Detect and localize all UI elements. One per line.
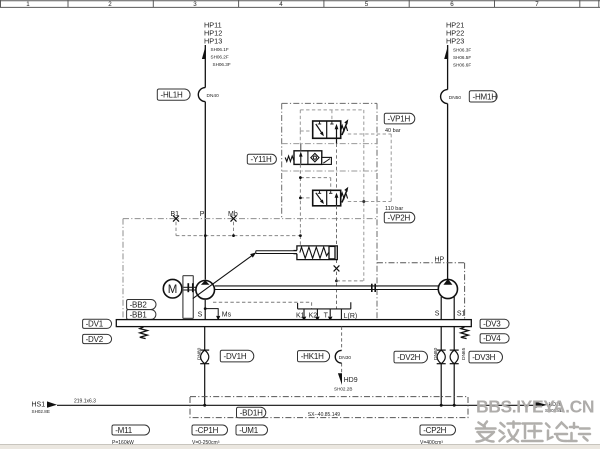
svg-text:-DV2: -DV2 xyxy=(86,335,104,344)
VP1H cell top ticks xyxy=(319,121,321,124)
labels -DV3 -DV4 xyxy=(480,319,509,328)
svg-text:DN50: DN50 xyxy=(449,95,462,101)
coupling motor-pump xyxy=(187,283,189,292)
label -DV2H xyxy=(394,351,428,363)
case line HP dash-dot xyxy=(377,263,465,320)
svg-text:-BD1H: -BD1H xyxy=(240,408,263,417)
case drain pump1 dashed xyxy=(213,302,312,309)
svg-text:HS1: HS1 xyxy=(32,401,46,408)
wire VP2H drain dashed with plug xyxy=(336,206,338,309)
label -M11 xyxy=(112,425,150,435)
arrow up on HP1 line xyxy=(202,45,206,59)
wire P riser upper xyxy=(204,45,206,88)
ruler top border frame xyxy=(0,0,600,7)
svg-text:DN40: DN40 xyxy=(207,93,220,99)
svg-text:-DV4: -DV4 xyxy=(483,334,501,343)
svg-text:219.1x6.3: 219.1x6.3 xyxy=(74,399,96,405)
svg-text:SX--40.85.149: SX--40.85.149 xyxy=(308,412,340,418)
pump CP1H xyxy=(196,281,215,300)
vibration damper left xyxy=(140,327,148,339)
solenoid valve Y11H xyxy=(285,151,331,165)
svg-text:7: 7 xyxy=(535,1,539,8)
pipe size break DN30 xyxy=(335,350,341,363)
svg-text:-DV1: -DV1 xyxy=(86,320,104,329)
svg-text:DN80: DN80 xyxy=(433,347,439,360)
svg-text:Ms: Ms xyxy=(222,311,232,318)
pilot wire network dashed xyxy=(176,222,300,246)
svg-text:DN30: DN30 xyxy=(339,355,352,361)
piston rod xyxy=(256,250,297,252)
pin labels SH06.3F SH06.5F SH06.6F xyxy=(453,48,471,68)
junction dots suction xyxy=(203,404,206,407)
svg-text:-DV1H: -DV1H xyxy=(224,352,247,361)
drain arrow HD9 xyxy=(338,373,342,385)
wire VP1H to VP2H dashed xyxy=(336,144,338,191)
junction dot drain xyxy=(335,280,338,283)
svg-text:S: S xyxy=(435,311,440,318)
watermark CJK strokes xyxy=(476,422,590,442)
VP1H spring xyxy=(341,126,348,132)
wire suction below bench pump1 xyxy=(204,327,206,351)
label -BD1H xyxy=(237,407,266,418)
pilot wires to VP2H xyxy=(300,178,330,236)
svg-text:-HM1H: -HM1H xyxy=(473,92,498,101)
label -HM1H xyxy=(469,91,497,102)
node HP11 HP12 HP13 labels xyxy=(204,20,222,45)
VP2H left cell arrow xyxy=(316,193,323,202)
enclosure box valve block dash-dot xyxy=(282,103,377,319)
svg-text:-DV2H: -DV2H xyxy=(397,353,420,362)
svg-text:BBS.IYEYA.CN: BBS.IYEYA.CN xyxy=(476,397,594,417)
pipe size break DN40 xyxy=(198,88,205,102)
cylinder spring xyxy=(300,247,329,258)
label -VP1H xyxy=(384,113,415,124)
svg-text:3: 3 xyxy=(193,1,197,8)
VP1H left cell arrow xyxy=(316,124,323,134)
suction end arrow HD10 xyxy=(535,402,547,409)
Y11H spring left xyxy=(285,156,294,162)
label -Y11H xyxy=(247,154,276,164)
label -HL1H xyxy=(157,89,190,100)
junction dots pilot xyxy=(204,234,207,237)
svg-text:-M11: -M11 xyxy=(115,426,133,435)
svg-text:-CP2H: -CP2H xyxy=(423,426,446,435)
svg-text:K2: K2 xyxy=(309,313,318,320)
svg-text:HP23: HP23 xyxy=(446,36,464,45)
svg-text:SH06.5F: SH06.5F xyxy=(453,55,471,60)
svg-text:-VP1H: -VP1H xyxy=(388,115,411,124)
variable displacement arrow xyxy=(193,255,253,298)
mounting bracket xyxy=(183,276,193,319)
piston xyxy=(329,246,335,259)
svg-text:M: M xyxy=(168,284,178,296)
svg-text:40 bar: 40 bar xyxy=(385,128,401,134)
pin labels SH06.1F SH06.2F SH06.3F xyxy=(211,47,231,67)
wire drain to remote dashed xyxy=(337,280,364,282)
enclosure box BD1H dash-dot xyxy=(190,397,468,418)
VP1H right cell arrow up xyxy=(336,126,338,138)
relief valve VP1H xyxy=(313,119,349,138)
svg-text:SH02.8E: SH02.8E xyxy=(32,409,50,414)
svg-text:1: 1 xyxy=(26,1,30,8)
svg-text:-BB2: -BB2 xyxy=(130,300,148,309)
unit boundary dash-dot with ports B1 P Mb xyxy=(123,219,377,320)
plug X xyxy=(334,265,340,271)
svg-text:-HL1H: -HL1H xyxy=(161,91,184,100)
coupling DN80 pump1 xyxy=(200,350,209,364)
svg-text:6: 6 xyxy=(450,1,454,8)
svg-text:HD9: HD9 xyxy=(344,377,358,384)
pipe size break DN50 xyxy=(441,90,448,104)
svg-text:S1: S1 xyxy=(457,310,466,317)
svg-text:SH06.6F: SH06.6F xyxy=(453,63,471,68)
svg-text:Mb: Mb xyxy=(228,211,238,218)
svg-text:-UM1: -UM1 xyxy=(239,426,259,435)
VP2H right cell arrow up xyxy=(336,195,338,206)
svg-text:-DV3: -DV3 xyxy=(483,320,501,329)
wire suction S pump1 xyxy=(204,300,206,320)
wire S1 pump2 xyxy=(453,297,455,320)
wire S below bench pump2 xyxy=(440,327,442,351)
remote pressure dashed loop xyxy=(348,134,391,202)
svg-text:S: S xyxy=(198,311,203,318)
svg-text:L(R): L(R) xyxy=(344,313,358,320)
wire Y11H stem top xyxy=(300,144,302,151)
svg-text:110 bar: 110 bar xyxy=(385,206,403,212)
label -UM1 xyxy=(236,425,268,435)
svg-text:HP13: HP13 xyxy=(204,36,222,45)
svg-text:SH06.3F: SH06.3F xyxy=(213,62,231,67)
Y11H left cell arrow up xyxy=(300,154,302,164)
label -DV3H xyxy=(469,351,503,363)
label -CP1H xyxy=(192,425,228,435)
svg-text:SH02.2B: SH02.2B xyxy=(334,387,352,392)
svg-text:DN80: DN80 xyxy=(196,347,202,360)
coupling pump-pump xyxy=(371,284,373,292)
coupling DN80 pump2 xyxy=(437,350,446,364)
Y11H check ball diamond xyxy=(311,153,319,161)
label -CP2H xyxy=(420,425,456,435)
Y11H solenoid box xyxy=(322,157,332,164)
bottom strip xyxy=(0,445,600,449)
wire Y11H stem bottom dashed xyxy=(299,164,301,177)
wire VP1H bottom stub xyxy=(336,138,338,143)
svg-text:-CP1H: -CP1H xyxy=(195,426,218,435)
label -VP2H xyxy=(384,212,414,223)
node HP21 HP22 HP23 labels xyxy=(446,20,464,45)
svg-text:2: 2 xyxy=(108,1,112,8)
motor shaft xyxy=(182,286,196,288)
leak drain below bench dashed xyxy=(341,327,343,374)
VP1H adjust arrow xyxy=(342,123,347,135)
labels -BB2 -BB1 xyxy=(127,300,156,310)
svg-text:4: 4 xyxy=(279,1,283,8)
svg-text:5: 5 xyxy=(365,1,369,8)
svg-text:SH06.1F: SH06.1F xyxy=(211,47,229,52)
wire S pump2 xyxy=(440,297,442,320)
svg-text:-BB1: -BB1 xyxy=(130,310,148,319)
divider lines valve block xyxy=(282,144,377,171)
inner pilot dashed box top xyxy=(300,110,364,281)
labels -DV1 -DV2 xyxy=(83,319,112,328)
pump CP2H xyxy=(438,279,457,298)
svg-text:T: T xyxy=(324,313,329,320)
svg-text:SH06.3F: SH06.3F xyxy=(453,48,471,53)
svg-text:P: P xyxy=(200,211,205,218)
svg-text:-VP2H: -VP2H xyxy=(388,214,411,223)
label -HK1H xyxy=(298,351,330,362)
svg-text:-HK1H: -HK1H xyxy=(301,352,324,361)
svg-text:SH06.2F: SH06.2F xyxy=(211,55,229,60)
relief valve VP2H xyxy=(313,187,349,206)
wire S1 below bench pump2 xyxy=(453,327,455,351)
stroking cylinder pump control xyxy=(256,246,337,260)
svg-text:-DV3H: -DV3H xyxy=(472,353,495,362)
vibration damper right xyxy=(461,327,469,339)
VP2H cell top ticks xyxy=(319,190,321,193)
manifold bracket ports K1 K2 T L(R) xyxy=(298,302,351,319)
motor M1 xyxy=(163,279,182,298)
VP2H adjust arrow xyxy=(342,191,347,203)
drive shaft to pump 2 xyxy=(215,285,439,287)
measuring branch Ms xyxy=(205,309,218,316)
svg-text:DN65: DN65 xyxy=(461,347,467,360)
label -DV1H xyxy=(220,350,254,362)
arrow up on HP2 line xyxy=(444,45,448,59)
svg-text:-Y11H: -Y11H xyxy=(251,155,273,164)
wire HP2 riser upper xyxy=(447,45,449,90)
wire HP2 riser to pump xyxy=(447,104,449,280)
bench base plate xyxy=(116,320,471,327)
wire P riser to pump xyxy=(204,102,206,280)
coupling DN65 pump2 xyxy=(450,350,459,364)
VP2H spring xyxy=(341,193,348,199)
